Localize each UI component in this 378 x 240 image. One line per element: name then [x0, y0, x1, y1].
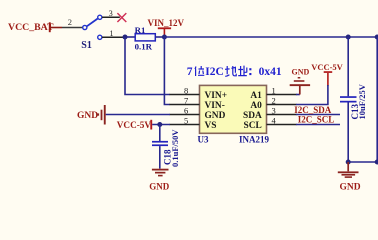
svg-text:0x41: 0x41 — [259, 66, 282, 78]
svg-text:3: 3 — [109, 9, 113, 18]
wire VCC-5V top to pin 2 — [267, 104, 297, 106]
pin 6 stub — [170, 114, 200, 116]
junction node B (load sense) — [162, 35, 167, 40]
wire node C down to C18 — [159, 125, 161, 142]
junction node C — [157, 122, 162, 127]
IC U3 body — [200, 85, 267, 133]
svg-text:A1: A1 — [250, 91, 262, 101]
annotation 7-bit I2C address 0x41 — [187, 66, 282, 79]
wire pin 4 net I2C_SCL — [267, 124, 297, 126]
wire vertical node A down to VIN+ — [125, 37, 170, 95]
wire top rail — [164, 36, 377, 38]
svg-text:0.1uF/50V: 0.1uF/50V — [170, 129, 180, 167]
switch S1 — [83, 15, 102, 39]
svg-text:VIN_12V: VIN_12V — [148, 18, 185, 28]
svg-text:SCL: SCL — [244, 121, 262, 131]
capacitor C18 — [152, 141, 168, 146]
pin 7 stub — [170, 104, 200, 106]
svg-text:GND: GND — [77, 111, 98, 121]
wire C18 to ground — [159, 146, 161, 169]
svg-text:SDA: SDA — [243, 111, 262, 121]
pin 8 stub — [170, 94, 200, 96]
junction node G — [375, 160, 378, 165]
svg-text:7: 7 — [187, 66, 193, 78]
wire port to switch pin 2 — [62, 27, 82, 29]
resistor R1 — [135, 34, 155, 41]
svg-text:GND: GND — [292, 68, 310, 77]
wire right vertical — [376, 37, 378, 162]
power port VIN_12V — [148, 18, 185, 36]
wire C13 to bottom rail — [347, 103, 349, 163]
svg-text:GND: GND — [149, 182, 170, 192]
switch pin 1 stub wire — [102, 36, 126, 38]
svg-text:6: 6 — [184, 106, 188, 116]
svg-text:8: 8 — [184, 86, 188, 96]
svg-text:GND: GND — [205, 111, 226, 121]
svg-text:VIN-: VIN- — [205, 101, 225, 111]
wire bottom rail — [348, 161, 377, 163]
wire VCC-5V to pin 5 — [152, 124, 170, 126]
wire R1 to node B — [155, 36, 164, 38]
svg-text:0.1R: 0.1R — [135, 42, 153, 52]
svg-text:I2C: I2C — [205, 66, 224, 78]
junction node D — [346, 35, 351, 40]
svg-text:A0: A0 — [250, 101, 262, 111]
junction node A (battery sense) — [123, 35, 128, 40]
svg-text:10uF/25V: 10uF/25V — [357, 83, 367, 119]
wire junction to R1 — [125, 36, 135, 38]
svg-text:S1: S1 — [81, 40, 92, 51]
port GND left — [77, 105, 106, 125]
svg-text:VS: VS — [205, 121, 217, 131]
svg-text:5: 5 — [184, 116, 188, 126]
wire node D down to C13 — [347, 37, 349, 96]
switch pin 3 stub — [102, 16, 120, 18]
ground symbol bottom right — [338, 162, 359, 178]
wire pin 1 to top ground — [267, 94, 297, 96]
svg-text:I2C_SDA: I2C_SDA — [294, 105, 332, 115]
svg-text:7: 7 — [184, 96, 188, 106]
svg-text:VCC-5V: VCC-5V — [311, 62, 343, 72]
junction node F — [346, 160, 351, 165]
power port VCC-5V top — [311, 62, 343, 86]
svg-text:I2C_SCL: I2C_SCL — [298, 115, 335, 125]
svg-text:VCC-5V: VCC-5V — [117, 120, 152, 130]
junction node E — [375, 35, 378, 40]
svg-text:VIN+: VIN+ — [205, 91, 228, 101]
svg-text:2: 2 — [68, 17, 72, 27]
svg-text:U3: U3 — [198, 135, 209, 145]
capacitor C13 — [340, 96, 357, 102]
no-ERC marker X — [117, 13, 126, 22]
svg-text:VCC_BAT: VCC_BAT — [8, 22, 54, 33]
port VCC_BAT — [8, 22, 62, 33]
svg-text:INA219: INA219 — [239, 135, 270, 145]
wire vertical node B down to VIN- — [164, 37, 170, 105]
pin 5 stub — [170, 124, 200, 126]
ground symbol below C18 — [152, 169, 169, 177]
svg-text:GND: GND — [340, 183, 361, 193]
svg-text:R1: R1 — [135, 25, 146, 35]
ground symbol top (pin 1) — [290, 77, 310, 95]
wire pin 3 net I2C_SDA — [267, 114, 297, 116]
wire GND port to pin 6 — [106, 114, 170, 116]
power port VCC-5V left — [117, 120, 152, 130]
